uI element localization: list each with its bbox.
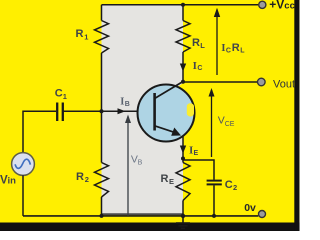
svg-text:R: R — [161, 173, 169, 185]
wire Vin bottom — [22, 175, 24, 216]
wire C2 bottom — [213, 185, 215, 216]
wire top rail — [102, 4, 259, 6]
resistor R1 — [95, 21, 109, 54]
wire C1 to Vin corner — [23, 110, 56, 112]
wire right rail upper — [182, 5, 184, 21]
source Vin — [12, 153, 35, 176]
wire left rail middle — [101, 53, 103, 163]
wire collector feed — [182, 52, 184, 82]
terminal +Vcc — [259, 1, 266, 8]
node top right — [181, 3, 185, 7]
wire Vin top — [22, 111, 24, 153]
resistor RL — [176, 21, 190, 53]
svg-text:L: L — [240, 48, 245, 55]
wire Vout horizontal — [183, 81, 258, 83]
wire emitter down — [182, 136, 184, 159]
svg-text:2: 2 — [85, 175, 89, 184]
svg-text:E: E — [169, 177, 174, 186]
resistor RE — [176, 163, 190, 201]
svg-text:L: L — [200, 41, 205, 50]
svg-text:CE: CE — [225, 121, 235, 128]
node R2 bottom — [100, 214, 104, 218]
svg-text:+V: +V — [269, 0, 284, 12]
resistor R2 — [95, 163, 109, 198]
terminal Vout — [258, 78, 266, 86]
svg-text:cc: cc — [284, 1, 295, 12]
node C2 bottom — [212, 214, 216, 218]
ground — [176, 216, 190, 229]
svg-text:B: B — [125, 101, 130, 108]
svg-text:1: 1 — [63, 92, 67, 101]
wire RE bottom — [182, 201, 184, 216]
svg-text:R: R — [232, 42, 240, 54]
svg-text:in: in — [8, 175, 17, 186]
yellow wedge above transistor — [176, 83, 184, 92]
svg-text:I: I — [193, 60, 197, 72]
svg-text:C: C — [197, 65, 202, 72]
arrow IC on wire — [180, 64, 186, 72]
arrow IB on base wire — [118, 108, 126, 114]
border bottom — [0, 223, 300, 232]
gray box — [102, 5, 184, 214]
svg-text:C: C — [225, 179, 233, 191]
node collector — [181, 80, 185, 84]
svg-text:I: I — [221, 43, 225, 54]
node ground — [181, 214, 185, 218]
svg-text:E: E — [194, 150, 199, 157]
wire emitter to C2 — [183, 160, 214, 180]
wire bottom rail — [23, 215, 258, 217]
node base junction — [100, 109, 104, 113]
svg-text:0v: 0v — [244, 202, 256, 214]
svg-text:I: I — [120, 96, 124, 107]
svg-text:R: R — [76, 171, 84, 183]
svg-text:R: R — [192, 37, 200, 49]
svg-text:C: C — [55, 88, 63, 100]
wire emitter to RE — [182, 159, 184, 163]
terminal 0v — [259, 211, 266, 218]
border edge light — [298, 0, 301, 231]
svg-text:R: R — [76, 28, 84, 40]
svg-text:Vout: Vout — [273, 78, 295, 90]
arrow ICRL — [214, 8, 220, 75]
svg-text:2: 2 — [233, 183, 237, 192]
wire left rail lower — [101, 197, 103, 216]
gray box bottom edge — [101, 213, 184, 215]
border right — [294, 0, 299, 231]
wire left rail upper — [101, 5, 103, 21]
svg-text:C: C — [226, 48, 231, 55]
transistor Q1 — [138, 82, 195, 142]
capacitor C1 — [56, 103, 58, 122]
arrow VCE — [209, 88, 215, 157]
node emitter — [181, 157, 185, 161]
arrow VB — [125, 115, 131, 216]
arrow IE on wire — [180, 146, 186, 154]
wire base horizontal — [64, 110, 155, 112]
highlight mark on transistor — [187, 103, 194, 116]
capacitor C2 — [207, 180, 222, 182]
svg-text:B: B — [138, 160, 143, 167]
svg-text:1: 1 — [84, 32, 88, 41]
